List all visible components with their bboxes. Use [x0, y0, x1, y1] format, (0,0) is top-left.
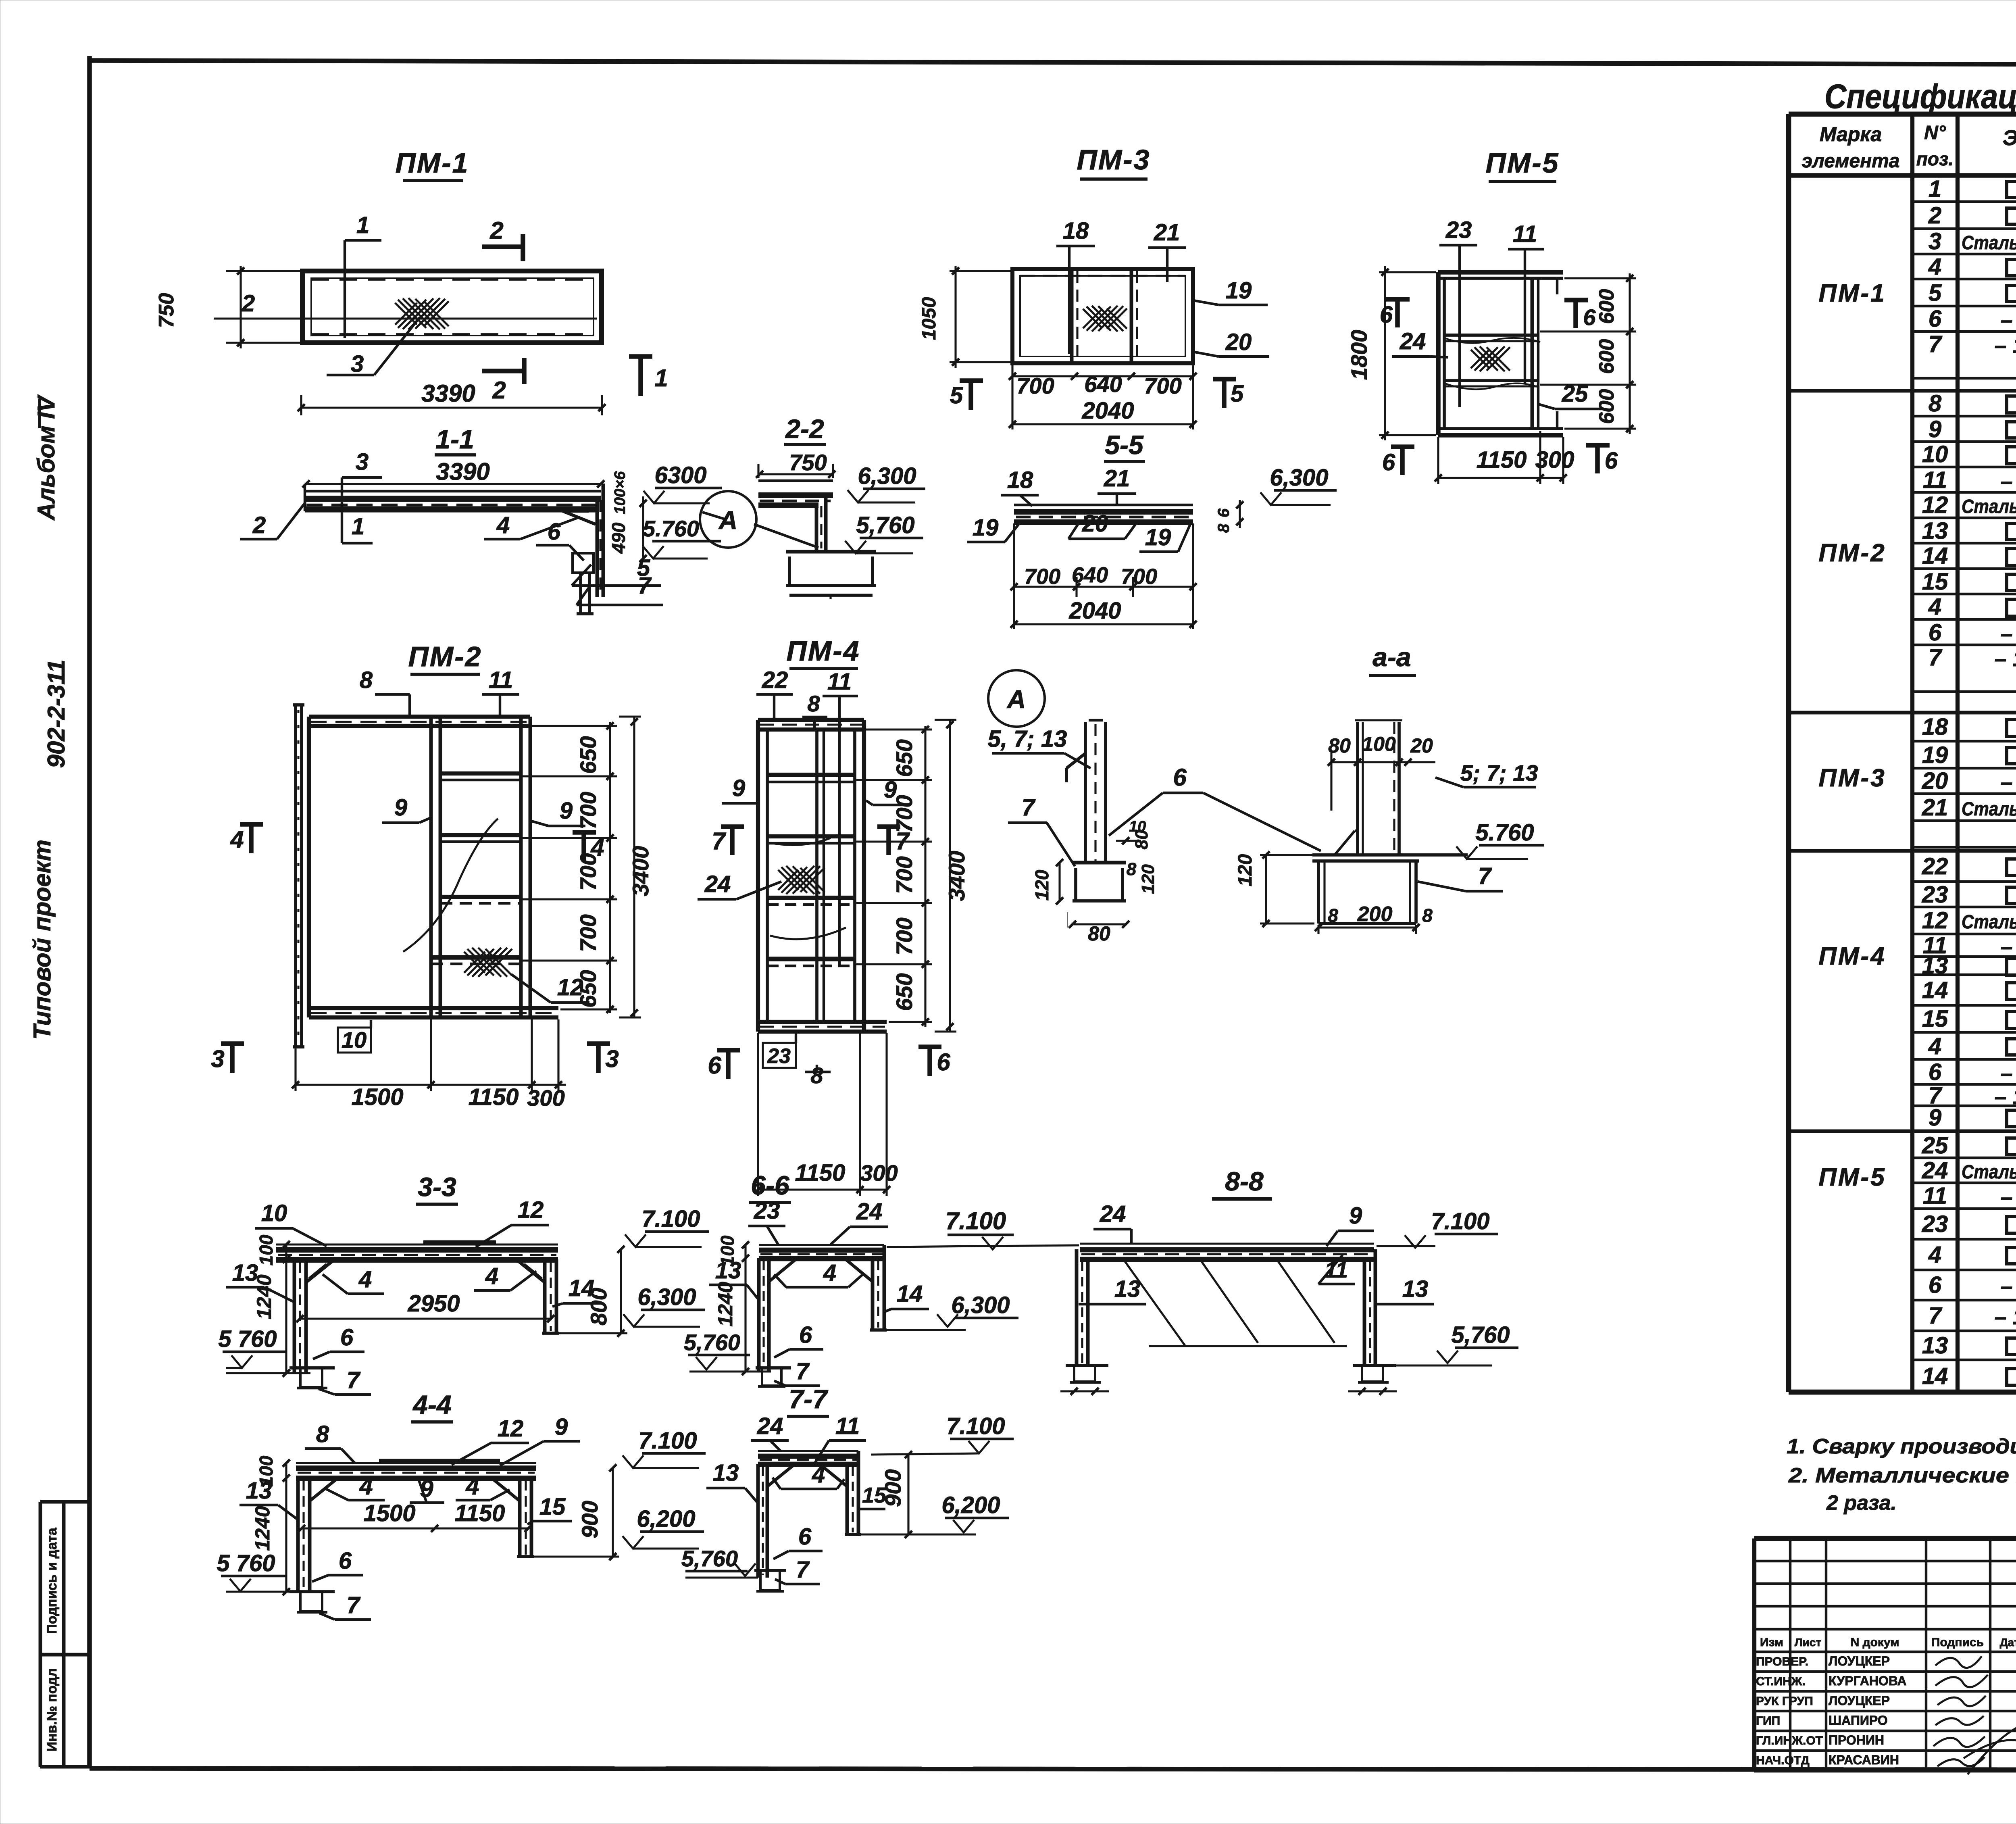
ПМ-2 hatched opening [464, 948, 512, 977]
svg-text:7: 7 [1478, 863, 1492, 889]
5-5 dimensions 700 640 700 [1010, 523, 1197, 629]
svg-text:1800: 1800 [1346, 330, 1372, 380]
table rows ПМ-5 [1818, 1132, 2016, 1390]
7-7 label 4 [773, 1461, 844, 1489]
svg-text:902-2-311: 902-2-311 [43, 659, 70, 768]
а-а gusset on plate [1335, 831, 1358, 855]
svg-text:6: 6 [1583, 304, 1596, 330]
detail А dimension 120 80 [1031, 818, 1158, 928]
svg-text:ЛОУЦКЕР: ЛОУЦКЕР [1829, 1654, 1890, 1668]
svg-text:2: 2 [1928, 202, 1941, 229]
ПМ-4 hatched opening [778, 866, 825, 894]
note 2 continuation [1826, 1491, 1897, 1515]
view title а-а [1369, 642, 1416, 675]
svg-text:7: 7 [638, 573, 652, 599]
ПМ-3 label 18 leader [1056, 218, 1095, 354]
svg-text:3390: 3390 [436, 458, 489, 485]
ПМ-3 dimensions 700 640 700 [1009, 363, 1197, 429]
3-3 label 14 [552, 1275, 601, 1307]
ПМ-2 rungs [431, 773, 521, 964]
svg-text:4: 4 [823, 1260, 836, 1286]
3-3 dimension 800 [559, 1246, 627, 1337]
а-а bottom dimension 200 8 8 [1315, 903, 1433, 934]
ПМ-2 labels 8 11 [360, 667, 519, 719]
detail А column [1085, 720, 1106, 863]
ПМ-5 label 25 leader [1538, 381, 1602, 409]
svg-text:11: 11 [1923, 467, 1947, 493]
detail А label 7 leader [1008, 794, 1075, 866]
svg-text:19: 19 [1226, 277, 1252, 304]
table group divider ПМ-3/ПМ-4 [1789, 849, 2016, 853]
ПМ-4 labels 22 11 8 [756, 667, 858, 965]
3-3 elevation 5 760 [218, 1326, 310, 1373]
svg-text:13: 13 [1922, 1332, 1948, 1359]
ПМ-2 ladder left rail [431, 717, 440, 1017]
svg-text:ПМ-4: ПМ-4 [787, 635, 860, 667]
svg-text:4: 4 [359, 1473, 373, 1500]
svg-text:6,300: 6,300 [951, 1292, 1010, 1318]
svg-text:3390: 3390 [421, 380, 475, 407]
svg-text:6: 6 [1380, 302, 1393, 328]
ПМ-4 label 23 box and 8 [763, 1033, 831, 1088]
ПМ-2 section marks 4 [230, 823, 604, 861]
ПМ-5 dimension 1800 [1346, 266, 1436, 440]
ПМ-4 label 24 leader [698, 871, 781, 899]
svg-text:600: 600 [1595, 389, 1618, 424]
view title 4-4 [411, 1390, 453, 1422]
ПМ-1 label 2 left [242, 290, 255, 317]
ПМ-4 labels 9 [722, 775, 908, 805]
ПМ-3 label 21 leader [1148, 219, 1186, 282]
1-1 elevation 6300 [644, 462, 722, 503]
ПМ-1 dimension 3390 [298, 380, 606, 415]
ПМ-3 dimension 2040 [1009, 398, 1197, 428]
svg-text:А: А [718, 506, 737, 535]
svg-text:23: 23 [754, 1198, 780, 1224]
svg-text:600: 600 [1595, 289, 1618, 324]
3-3 labels 6 7 and foot [289, 1324, 371, 1395]
8-8 platform [1080, 1244, 1374, 1259]
svg-text:9: 9 [394, 794, 407, 821]
ПМ-5 section marks 6 top [1380, 298, 1596, 330]
svg-text:120: 120 [1031, 869, 1052, 901]
svg-text:9: 9 [1929, 416, 1941, 442]
svg-text:19: 19 [1145, 524, 1171, 550]
svg-text:5 760: 5 760 [217, 1550, 275, 1576]
4-4 elevation 5 760 [217, 1550, 310, 1592]
8-8 right leg [1364, 1249, 1375, 1365]
svg-text:490: 490 [608, 522, 629, 554]
svg-text:20: 20 [1922, 768, 1948, 794]
svg-text:700: 700 [575, 914, 601, 952]
ПМ-1 plan outline [302, 271, 602, 343]
2-2 beam [758, 481, 833, 505]
svg-text:1: 1 [352, 513, 364, 540]
ПМ-5 section marks 6 bottom [1382, 444, 1618, 475]
svg-text:10: 10 [342, 1027, 367, 1053]
6-6 and 8-8 shared elevation 7.100 [887, 1207, 1079, 1249]
svg-text:4: 4 [812, 1461, 825, 1488]
1-1 right post [597, 484, 603, 597]
1-1 beam [305, 484, 601, 511]
view title ПМ-2 [408, 641, 482, 674]
svg-text:6: 6 [340, 1324, 354, 1351]
4-4 dimension 900 [534, 1464, 619, 1560]
svg-text:25: 25 [1922, 1132, 1948, 1159]
svg-text:300: 300 [860, 1160, 898, 1186]
svg-text:750: 750 [155, 293, 178, 328]
ПМ-1 hatched opening [395, 298, 449, 329]
svg-text:19: 19 [973, 515, 999, 541]
а-а label 7 [1418, 863, 1503, 891]
signature squiggles [1933, 1656, 2016, 1774]
svg-text:12: 12 [1922, 907, 1948, 934]
svg-text:5,760: 5,760 [1451, 1322, 1510, 1348]
ПМ-4 mid rail [817, 730, 824, 1022]
svg-text:15: 15 [862, 1483, 887, 1507]
table rows ПМ-3 empty line [1912, 821, 2016, 847]
svg-text:8: 8 [360, 667, 373, 693]
svg-text:21: 21 [1154, 219, 1180, 246]
5-5 beam [1014, 505, 1193, 522]
1-1 label 2 leader [240, 502, 306, 539]
8-8 elevation 7.100 right [1377, 1208, 1498, 1248]
svg-text:3400: 3400 [628, 846, 653, 896]
left margin text Альбом IV [33, 394, 60, 521]
table group divider ПМ-4/ПМ-5 [1789, 1130, 2016, 1133]
svg-text:23: 23 [1922, 882, 1948, 908]
svg-text:11: 11 [835, 1413, 860, 1439]
svg-text:1: 1 [1929, 176, 1941, 202]
svg-text:6: 6 [1382, 449, 1395, 475]
svg-text:24: 24 [1400, 328, 1426, 354]
svg-text:100: 100 [1362, 733, 1396, 755]
ПМ-2 label 9 right [531, 798, 585, 826]
svg-text:3: 3 [211, 1045, 224, 1072]
svg-text:Подпись и дата: Подпись и дата [44, 1527, 60, 1634]
ПМ-4 curved leaders [770, 838, 846, 939]
svg-text:4: 4 [496, 512, 510, 538]
1-1 gusset [561, 511, 596, 524]
6-6 label 13 [709, 1257, 760, 1301]
svg-text:КРАСАВИН: КРАСАВИН [1829, 1753, 1899, 1767]
svg-text:6: 6 [1929, 306, 1942, 332]
svg-text:19: 19 [1922, 742, 1948, 768]
svg-text:700: 700 [575, 792, 601, 829]
6-6 label 14 [885, 1281, 929, 1311]
2-2 elevation 5,760 [845, 512, 923, 553]
view title ПМ-5 [1486, 147, 1560, 181]
svg-text:4: 4 [465, 1473, 479, 1500]
svg-text:ПМ-3: ПМ-3 [1077, 144, 1151, 175]
svg-text:5,760: 5,760 [856, 512, 914, 538]
2-2 dimension 750 [756, 450, 835, 478]
ПМ-4 section marks 6 bottom [708, 1045, 950, 1079]
margin box text Инв № подл [44, 1668, 60, 1752]
svg-text:– 80×8: – 80×8 [2001, 308, 2016, 332]
ПМ-3 dimension 1050 [918, 266, 1011, 368]
svg-text:700: 700 [1144, 373, 1181, 398]
3-3 label 13 [226, 1260, 295, 1303]
svg-text:N°: N° [1924, 122, 1946, 144]
svg-text:7.100: 7.100 [1431, 1208, 1489, 1234]
svg-text:13: 13 [713, 1460, 739, 1486]
svg-text:1500: 1500 [363, 1500, 415, 1526]
svg-text:5,760: 5,760 [684, 1330, 740, 1355]
4-4 platform [296, 1461, 536, 1478]
svg-text:Подпись: Подпись [1931, 1636, 1984, 1649]
1-1 label 6 leader [536, 519, 584, 561]
svg-text:23: 23 [1445, 217, 1472, 243]
6-6 labels 23 24 [748, 1198, 888, 1244]
svg-text:1150: 1150 [795, 1160, 846, 1186]
4-4 label 15 [527, 1494, 572, 1524]
svg-text:120: 120 [1138, 864, 1158, 894]
svg-text:Инв.№ подл: Инв.№ подл [44, 1668, 60, 1752]
ПМ-2 right dimensions 650 700 700 700 650 [523, 722, 617, 1013]
view title ПМ-4 [787, 635, 860, 669]
5-5 dimension 2040 [1010, 598, 1197, 628]
svg-text:6,200: 6,200 [637, 1506, 695, 1532]
svg-text:КУРГАНОВА: КУРГАНОВА [1829, 1674, 1906, 1688]
bottom-left margin box [40, 1502, 90, 1767]
svg-text:ПМ-5: ПМ-5 [1486, 147, 1560, 179]
svg-text:14: 14 [1922, 1363, 1948, 1389]
ПМ-1 label 1 leader [345, 212, 381, 338]
svg-text:8: 8 [1215, 523, 1233, 533]
svg-text:21: 21 [1104, 465, 1130, 492]
7-7 elevation 5,760 [681, 1546, 758, 1578]
left margin text 902-2-311 [43, 659, 70, 768]
svg-text:Марка: Марка [1820, 123, 1882, 146]
svg-text:9: 9 [1349, 1203, 1362, 1229]
ПМ-3 label 19 leader [1193, 277, 1268, 305]
svg-text:750: 750 [789, 450, 827, 475]
svg-text:N докум: N докум [1851, 1636, 1899, 1649]
а-а base [1312, 855, 1468, 923]
svg-text:6: 6 [937, 1049, 950, 1076]
ПМ-1 left extension lines [226, 271, 304, 343]
ПМ-2 label 10 box [338, 1020, 371, 1053]
svg-text:6: 6 [548, 519, 561, 545]
ПМ-5 labels 23 11 [1439, 217, 1544, 407]
7-7 labels 24 11 [751, 1413, 866, 1462]
ПМ-2 right dimension 3400 [619, 717, 653, 1017]
8-8 labels 24 9 11 [1093, 1201, 1374, 1284]
svg-text:6: 6 [1929, 619, 1942, 646]
svg-text:– 100×8: – 100×8 [1995, 647, 2016, 671]
svg-text:7.100: 7.100 [641, 1206, 700, 1232]
svg-text:5-5: 5-5 [1105, 430, 1144, 460]
svg-text:8: 8 [1422, 905, 1433, 926]
svg-text:22: 22 [762, 667, 788, 693]
svg-text:ПМ-1: ПМ-1 [1818, 279, 1886, 307]
4-4 left leg [298, 1478, 310, 1592]
left margin text Типовой проект [29, 840, 56, 1040]
svg-text:1150: 1150 [1477, 447, 1527, 473]
view title 3-3 [416, 1172, 458, 1204]
svg-text:2. Металлические площадки по: 2. Металлические площадки покрасить масл… [1788, 1464, 2016, 1487]
svg-text:5: 5 [950, 382, 963, 409]
svg-text:1240: 1240 [714, 1282, 737, 1326]
ПМ-5 rungs [1444, 335, 1540, 389]
ПМ-4 bottom dimensions 1150 300 [754, 1033, 898, 1196]
svg-text:100×6: 100×6 [612, 471, 629, 515]
svg-text:13: 13 [1114, 1276, 1141, 1302]
svg-text:5.760: 5.760 [643, 516, 699, 541]
svg-text:12: 12 [518, 1197, 544, 1223]
svg-text:ГИП: ГИП [1756, 1714, 1780, 1728]
svg-text:7: 7 [347, 1367, 361, 1393]
table rows ПМ-2 [1818, 390, 2016, 671]
7-7 left leg [758, 1464, 767, 1578]
svg-text:6: 6 [1929, 1272, 1942, 1298]
6-6 gussets [769, 1258, 873, 1282]
table rows ПМ-3 [1818, 713, 2016, 821]
svg-text:5; 7; 13: 5; 7; 13 [1460, 760, 1538, 786]
svg-text:– 100×8: – 100×8 [1995, 334, 2016, 358]
svg-text:ШАПИРО: ШАПИРО [1829, 1713, 1888, 1728]
1-1 dimension 490 100x6 [608, 471, 647, 562]
svg-text:5 760: 5 760 [218, 1326, 277, 1352]
svg-text:8: 8 [1328, 905, 1338, 926]
svg-text:80: 80 [1088, 922, 1110, 945]
ПМ-5 label 24 leader [1392, 328, 1448, 357]
svg-text:2 раза.: 2 раза. [1826, 1491, 1897, 1515]
7-7 labels 6 7 and foot [754, 1524, 823, 1591]
table rows ПМ-4 [1818, 851, 2016, 1132]
table group divider ПМ-1/ПМ-2 [1789, 389, 2016, 393]
3-3 elevation 6,300 [623, 1284, 705, 1327]
svg-text:3400: 3400 [944, 851, 969, 901]
view title 5-5 [1104, 430, 1145, 461]
а-а top dimension 80 100 20 [1328, 733, 1435, 811]
view title ПМ-3 [1077, 144, 1151, 179]
svg-text:8: 8 [316, 1421, 329, 1447]
6-6 right leg [870, 1245, 887, 1330]
svg-text:А: А [1006, 685, 1026, 714]
ПМ-4 section marks 7 [712, 825, 910, 855]
signature rows labels [1756, 1654, 1906, 1767]
view title 7-7 [787, 1384, 829, 1416]
7-7 right leg [845, 1451, 861, 1534]
svg-text:11: 11 [1923, 1183, 1947, 1209]
svg-text:15: 15 [1922, 569, 1948, 595]
svg-text:8: 8 [807, 691, 820, 716]
7-7 platform [758, 1451, 858, 1464]
а-а elevation 5.760 [1456, 819, 1544, 859]
svg-text:4: 4 [1928, 594, 1941, 620]
svg-text:6,300: 6,300 [858, 463, 916, 489]
title block revision grid [1754, 1538, 2016, 1770]
svg-text:ГЛ.ИНЖ.ОТ: ГЛ.ИНЖ.ОТ [1756, 1734, 1823, 1747]
svg-text:21: 21 [1922, 794, 1948, 821]
label 6 with two leaders [1109, 764, 1321, 851]
ПМ-2 section marks 3 [211, 1042, 619, 1073]
а-а dimension 120 [1235, 851, 1314, 927]
svg-text:7: 7 [796, 1358, 810, 1384]
6-6 label 4 [774, 1260, 863, 1287]
note 1 welding [1787, 1435, 2016, 1458]
3-3 left leg [294, 1259, 306, 1373]
detail А circle [988, 670, 1045, 727]
svg-text:18: 18 [1922, 714, 1948, 740]
а-а label 5;7;13 [1435, 760, 1538, 787]
svg-text:600: 600 [1595, 339, 1618, 374]
svg-text:3: 3 [356, 449, 369, 475]
svg-text:2: 2 [492, 377, 506, 404]
svg-text:– 100×8: – 100×8 [1995, 1305, 2016, 1329]
ПМ-1 vertical dimension 750 [155, 266, 244, 348]
svg-text:– 80×8: – 80×8 [2001, 469, 2016, 494]
svg-text:7: 7 [347, 1592, 361, 1618]
svg-text:6: 6 [708, 1052, 721, 1079]
5-5 end dimensions 6 8 [1215, 500, 1243, 533]
svg-text:9: 9 [555, 1414, 568, 1440]
detail А dimension 80 bottom [1069, 921, 1129, 945]
svg-text:6: 6 [1215, 508, 1233, 517]
ПМ-4 right dimensions 650 700 700 700 650 [856, 726, 932, 1027]
svg-text:900: 900 [577, 1501, 602, 1538]
svg-text:5,760: 5,760 [681, 1546, 738, 1571]
margin box text Подпись и дата [44, 1527, 60, 1634]
svg-text:ПМ-2: ПМ-2 [1818, 539, 1886, 567]
view title 2-2 [784, 414, 826, 444]
ПМ-4 rungs [767, 775, 855, 966]
4-4 dimensions 1500 1150 [298, 1500, 532, 1532]
svg-text:4: 4 [485, 1263, 498, 1289]
svg-text:18: 18 [1063, 218, 1089, 244]
svg-text:650: 650 [575, 970, 601, 1007]
3-3 right leg [542, 1259, 559, 1333]
svg-text:22: 22 [1922, 853, 1948, 880]
4-4 labels 9 4 4 [326, 1473, 510, 1503]
svg-text:– 80×8: – 80×8 [2001, 1061, 2016, 1086]
svg-text:700: 700 [891, 795, 917, 832]
svg-text:1: 1 [654, 365, 668, 392]
svg-text:11: 11 [1513, 221, 1537, 247]
view title ПМ-1 [396, 147, 469, 181]
svg-text:100: 100 [717, 1235, 738, 1266]
ПМ-3 plan outline [1012, 269, 1193, 363]
svg-text:Альбом IV: Альбом IV [33, 394, 60, 521]
svg-text:6: 6 [1929, 1059, 1942, 1085]
svg-text:Сталь рифл δ=6: Сталь рифл δ=6 [1962, 911, 2016, 933]
svg-text:2: 2 [252, 512, 266, 538]
detail А base [1073, 863, 1126, 901]
ПМ-2 label 9 left [382, 794, 431, 823]
svg-text:ПМ-2: ПМ-2 [408, 641, 482, 672]
1-1 label 4 leader [484, 512, 580, 539]
1-1 label 3 bracket [342, 449, 382, 543]
4-4 labels 6 7 and foot [289, 1548, 371, 1620]
7-7 elevation 6,200 [861, 1492, 1009, 1534]
svg-text:20: 20 [1410, 734, 1433, 757]
1-1 clamp element [573, 553, 594, 614]
svg-text:3-3: 3-3 [418, 1172, 456, 1202]
svg-text:1150: 1150 [455, 1500, 505, 1526]
8-8 elevation 5,760 [1396, 1322, 1518, 1365]
svg-text:8: 8 [1127, 859, 1137, 879]
ПМ-1 label 3 leader [327, 318, 419, 377]
ПМ-2 bottom dimensions 1500 1150 300 [292, 1019, 566, 1111]
ПМ-1 section mark 2 bottom [482, 358, 525, 404]
3-3 labels 4 [323, 1263, 536, 1294]
table rows ПМ-1 empty line [1912, 377, 2016, 379]
svg-text:2-2: 2-2 [785, 414, 824, 444]
note 2 painting [1788, 1464, 2016, 1487]
svg-text:100: 100 [256, 1234, 277, 1265]
